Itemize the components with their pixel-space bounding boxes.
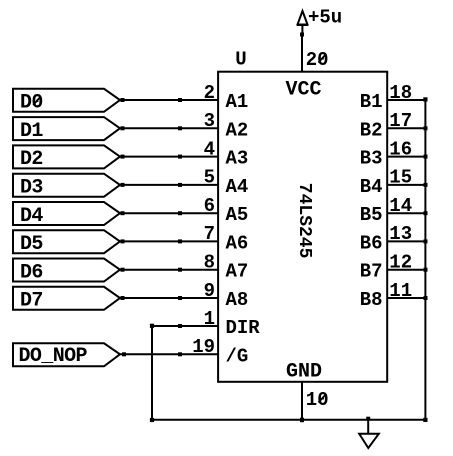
wire pin 8 (A7) [120, 269, 218, 271]
junction dot D6 tip [121, 268, 125, 272]
svg-text:B3: B3 [360, 148, 383, 170]
wire pin 16 (B3) [387, 156, 426, 158]
svg-text:9: 9 [204, 280, 215, 302]
svg-text:15: 15 [389, 167, 412, 189]
junction dot D4 mid [178, 211, 182, 215]
flag DO_NOP [13, 343, 120, 366]
junction dot D0 tip [121, 98, 125, 102]
svg-text:A4: A4 [226, 176, 249, 198]
wire pin 4 (A3) [120, 156, 218, 158]
junction dot bus pin 13 [424, 239, 428, 243]
wire pin 9 (A8) [120, 297, 218, 299]
svg-text:12: 12 [389, 252, 412, 274]
wire pin 10 (GND) [301, 382, 303, 420]
junction dot bottom-left corner [150, 418, 154, 422]
svg-text:3: 3 [204, 110, 215, 132]
svg-text:A2: A2 [226, 119, 249, 141]
svg-text:11: 11 [389, 280, 412, 302]
junction dot bus pin 11 [424, 296, 428, 300]
svg-text:18: 18 [389, 82, 412, 104]
bottom ground wire [152, 419, 425, 421]
wire pin 13 (B6) [387, 240, 426, 242]
junction dot D6 mid [178, 268, 182, 272]
wire pin 3 (A2) [120, 127, 218, 129]
svg-text:1: 1 [204, 308, 215, 330]
svg-text:+5u: +5u [308, 6, 342, 28]
svg-text:14: 14 [389, 195, 412, 217]
junction dot D4 tip [121, 211, 125, 215]
svg-text:D7: D7 [20, 290, 43, 313]
junction dot GND pin bottom [300, 418, 304, 423]
junction dot DIR corner [150, 324, 154, 328]
junction dot D7 tip [121, 296, 125, 300]
svg-text:D5: D5 [20, 233, 43, 256]
svg-text:VCC: VCC [286, 79, 322, 102]
svg-text:/G: /G [226, 345, 249, 367]
svg-text:B1: B1 [360, 91, 383, 113]
svg-text:4: 4 [204, 138, 215, 160]
junction dot D3 tip [121, 183, 125, 187]
junction dot D1 mid [178, 126, 182, 130]
svg-text:A5: A5 [226, 204, 249, 226]
svg-text:D2: D2 [20, 148, 43, 171]
junction dot bus pin 15 [424, 183, 428, 187]
junction dot bus pin 16 [424, 155, 428, 159]
junction dot D2 tip [121, 155, 125, 159]
svg-text:20: 20 [306, 49, 329, 71]
junction dot bus pin 14 [424, 211, 428, 215]
junction dot bottom-right corner [423, 418, 427, 422]
flag D5 [13, 230, 120, 253]
flag D7 [13, 287, 120, 310]
svg-text:19: 19 [192, 336, 215, 358]
power symbol +5v arrow [297, 11, 308, 35]
svg-text:2: 2 [204, 82, 215, 104]
junction dot D7 mid [178, 296, 182, 300]
svg-text:5: 5 [204, 167, 215, 189]
svg-text:B6: B6 [360, 232, 383, 254]
svg-text:B4: B4 [360, 176, 383, 198]
svg-text:B5: B5 [360, 204, 383, 226]
svg-text:17: 17 [389, 110, 412, 132]
junction dot D0 mid [178, 98, 182, 102]
junction dot bus pin 17 [424, 126, 428, 130]
svg-text:DO_NOP: DO_NOP [19, 345, 88, 368]
svg-text:7: 7 [204, 223, 215, 245]
svg-text:A3: A3 [226, 148, 249, 170]
svg-text:B8: B8 [360, 289, 383, 311]
wire pin 7 (A6) [120, 240, 218, 242]
wire pin 2 (A1) [120, 99, 218, 101]
wire pin 12 (B7) [387, 269, 426, 271]
svg-text:74LS245: 74LS245 [294, 183, 314, 259]
flag D1 [13, 117, 120, 140]
wire pin 5 (A4) [120, 184, 218, 186]
svg-text:B7: B7 [360, 261, 383, 283]
ground symbol [359, 420, 379, 448]
svg-text:A7: A7 [226, 261, 249, 283]
wire pin 1 (DIR) [152, 326, 218, 420]
svg-text:A1: A1 [226, 91, 249, 113]
junction dot D3 mid [178, 183, 182, 187]
flag D6 [13, 259, 120, 282]
flag D4 [13, 202, 120, 225]
wire power to VCC pin [301, 35, 303, 72]
junction dot bus pin 12 [424, 268, 428, 272]
wire pin 19 (/G) [120, 353, 218, 355]
right vertical bus wire [424, 100, 426, 420]
svg-text:D0: D0 [20, 92, 43, 115]
junction dot DO_NOP tip [122, 352, 126, 356]
svg-text:6: 6 [204, 195, 215, 217]
wire pin 17 (B2) [387, 127, 426, 129]
svg-text:13: 13 [389, 223, 412, 245]
junction dot /G mid [178, 352, 182, 356]
wire pin 6 (A5) [120, 212, 218, 214]
svg-text:GND: GND [286, 360, 322, 383]
svg-text:D1: D1 [20, 120, 43, 143]
svg-text:D6: D6 [20, 261, 43, 284]
junction dot D1 tip [121, 126, 125, 130]
IC U 74LS245 body [218, 72, 387, 382]
svg-text:A8: A8 [226, 289, 249, 311]
svg-text:A6: A6 [226, 232, 249, 254]
flag D2 [13, 145, 120, 168]
junction dot DIR mid [178, 324, 182, 328]
svg-text:10: 10 [306, 389, 329, 411]
svg-text:16: 16 [389, 138, 412, 160]
wire pin 15 (B4) [387, 184, 426, 186]
junction dot power wire [300, 33, 304, 37]
svg-text:DIR: DIR [226, 317, 261, 339]
junction dot bus top corner [423, 97, 427, 101]
wire pin 14 (B5) [387, 212, 426, 214]
svg-text:D4: D4 [20, 205, 43, 228]
wire pin 11 (B8) [387, 297, 426, 299]
wire pin 18 (B1) to bus [387, 99, 426, 101]
junction dot ground stem [366, 417, 370, 421]
svg-text:8: 8 [204, 252, 215, 274]
junction dot D5 tip [121, 239, 125, 243]
svg-text:D3: D3 [20, 177, 43, 200]
junction dot D5 mid [178, 239, 182, 243]
svg-text:B2: B2 [360, 119, 383, 141]
flag D3 [13, 174, 120, 197]
junction dot D2 mid [178, 155, 182, 159]
svg-text:U: U [235, 49, 246, 71]
flag D0 [13, 89, 120, 112]
